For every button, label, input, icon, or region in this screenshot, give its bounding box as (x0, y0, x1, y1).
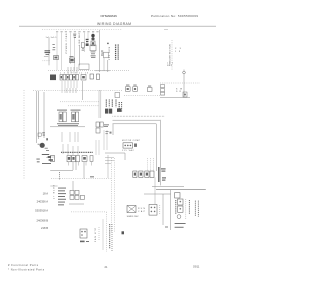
svg-text:5303918 A: 5303918 A (35, 208, 48, 212)
wire (155, 124, 157, 171)
dashes (98, 227, 100, 240)
mark (134, 144, 137, 147)
connector ticks (67, 88, 76, 93)
wire (69, 203, 84, 205)
dashed wire (160, 82, 200, 84)
ticks above strip 2 (63, 144, 78, 155)
starter cluster (70, 58, 75, 63)
wire (84, 33, 86, 53)
harness verticals (99, 90, 101, 118)
wire (50, 169, 73, 171)
connector (115, 93, 120, 98)
switch marks (52, 44, 55, 50)
header rule (19, 25, 216, 27)
terminal block (105, 109, 112, 114)
rotated label (194, 201, 196, 217)
wire (152, 185, 184, 187)
door switch stack (161, 85, 165, 96)
connector J1 pins (60, 75, 79, 81)
wire grid (105, 155, 114, 178)
dashed stub (42, 60, 49, 62)
defrost timer label (57, 110, 81, 111)
svg-text:Publication No: 5995580069: Publication No: 5995580069 (151, 14, 198, 18)
rotated label (109, 224, 111, 249)
overload protector (91, 34, 94, 37)
wire (48, 38, 50, 65)
part list tick (50, 185, 57, 187)
rotated wire labels (105, 100, 107, 108)
wire (105, 152, 125, 154)
small connector boxes (70, 190, 84, 199)
dashed vertical (185, 199, 187, 219)
svg-text:MOTOR COMP: MOTOR COMP (122, 140, 141, 142)
junction tick (107, 43, 109, 44)
rotated wire label (118, 102, 120, 112)
wire (103, 58, 105, 71)
wire (61, 33, 63, 71)
svg-text:18: 18 (175, 51, 181, 53)
rotated wire label (117, 45, 119, 61)
timer pin labels (57, 123, 79, 126)
wire (160, 97, 190, 99)
start device (149, 205, 157, 216)
svg-text:M: M (41, 144, 43, 147)
terminal mark (117, 108, 121, 112)
connector pin ticks (68, 67, 77, 74)
connector J4 (97, 74, 100, 80)
svg-text:FFHS2622MW: FFHS2622MW (101, 14, 118, 18)
svg-text:* Non-Illustrated Parts: * Non-Illustrated Parts (8, 268, 45, 272)
relay box row (133, 171, 154, 177)
evaporator fan motor cluster (38, 133, 41, 136)
wire (102, 219, 104, 250)
wire (159, 120, 161, 186)
diagram top boundary dashed (42, 28, 122, 30)
connector strip 2 boxes (67, 156, 93, 162)
PTC start relay (91, 41, 95, 46)
cabinet dashed border (23, 90, 25, 180)
freezer partition dashed (171, 40, 173, 70)
junction box (104, 52, 109, 58)
wire (99, 30, 101, 72)
thermostat boxes (178, 199, 183, 205)
ice maker outline (79, 64, 89, 70)
svg-text:18 A: 18 A (43, 192, 49, 196)
wire (43, 92, 45, 138)
rotated wire label (121, 102, 123, 112)
capacitor C1 (45, 50, 51, 54)
marks below (80, 241, 89, 243)
component cluster (86, 39, 89, 46)
freezer fan box (80, 229, 87, 238)
connector strip 2 labels (61, 151, 93, 153)
svg-text:240356 A: 240356 A (37, 199, 49, 203)
wire (74, 38, 76, 70)
dashed vertical (106, 212, 108, 252)
dashed wire (51, 178, 111, 180)
rotated wire label (111, 100, 113, 108)
ticks (62, 132, 78, 142)
dashed wire (71, 211, 107, 213)
svg-text:WIRING DIAGRAM: WIRING DIAGRAM (97, 22, 131, 26)
svg-text:CAP: CAP (138, 210, 146, 213)
text rows (58, 188, 66, 206)
dashed wire (33, 90, 122, 92)
svg-text:115 VAC: 115 VAC (122, 149, 135, 152)
svg-text:N2: N2 (167, 65, 173, 67)
compressor terminal box (90, 45, 96, 51)
switch marks (82, 48, 85, 50)
wire (112, 124, 114, 135)
svg-text:YEL BRN: YEL BRN (109, 46, 111, 60)
wire (72, 181, 74, 190)
connector (175, 193, 180, 198)
svg-text:LINE WHT: LINE WHT (79, 32, 81, 46)
wire (82, 81, 84, 100)
main vertical wire pair (36, 91, 38, 143)
wire (183, 74, 185, 97)
thermostat bulb (177, 215, 181, 219)
relay block (96, 122, 103, 133)
wires below connector (62, 81, 77, 93)
wire (92, 31, 94, 34)
svg-text:03/11: 03/11 (193, 264, 200, 268)
freezer lamp (183, 71, 186, 74)
wire (70, 33, 72, 65)
wire (162, 194, 164, 225)
svg-text:1=1-1=1-1: 1=1-1=1-1 (46, 37, 58, 39)
boundary tick (164, 29, 168, 31)
tick (44, 56, 48, 58)
dashed wires center (60, 101, 99, 103)
wire (154, 177, 156, 204)
harness dashed wire (48, 70, 130, 72)
bracket bar (158, 167, 159, 182)
svg-text:POWER CORD: POWER CORD (66, 33, 68, 54)
compressor box (123, 143, 133, 148)
rotated wire label (115, 100, 117, 108)
harness verticals right (96, 130, 107, 155)
motor M2 (40, 143, 45, 148)
wire (107, 60, 109, 72)
wire (87, 33, 89, 40)
harness marks (106, 131, 112, 134)
relay K1 (53, 56, 58, 60)
lamp assembly (183, 92, 187, 97)
dashed wire right (124, 95, 165, 97)
svg-text:218 B: 218 B (41, 226, 48, 230)
rotated wire label (108, 100, 110, 108)
svg-text:240368 B: 240368 B (36, 218, 48, 222)
marks (90, 175, 94, 178)
svg-text:DR: DR (176, 91, 182, 93)
wire (113, 123, 157, 125)
wire label specks row (56, 30, 99, 33)
run capacitor (127, 206, 136, 213)
svg-text:LT BLUE: LT BLUE (53, 184, 55, 199)
label marks (73, 34, 76, 38)
svg-text:RUN: RUN (138, 208, 146, 210)
defrost timer boxes (59, 112, 79, 122)
bracket labels (161, 168, 166, 180)
labels (165, 223, 186, 228)
wire (56, 33, 58, 71)
wire (170, 190, 172, 230)
dashed vertical pair (111, 158, 114, 232)
section rule (156, 189, 206, 191)
dashes (159, 205, 161, 214)
ground mark (122, 231, 125, 234)
motor marks (36, 154, 53, 164)
junction marks (101, 51, 103, 56)
wires below strip 2 (73, 162, 84, 179)
connector J3 (90, 74, 94, 79)
wire (78, 46, 80, 66)
dashed verticals to relays (148, 158, 154, 172)
switch S1 (81, 43, 84, 48)
svg-text:10MFD 250V: 10MFD 250V (127, 216, 140, 218)
wire (124, 153, 126, 160)
rotated wire label (59, 172, 61, 180)
strip ticks (69, 162, 92, 166)
svg-text:# Functional Parts: # Functional Parts (8, 263, 39, 267)
inline connectors (126, 87, 153, 92)
svg-text:FAN MTR: FAN MTR (94, 227, 97, 242)
rotated label (175, 200, 177, 214)
defrost heater dotted (113, 115, 166, 117)
main board connector block (50, 75, 56, 81)
wire (113, 119, 161, 121)
ground wire strip (111, 224, 113, 252)
wire (144, 193, 171, 195)
wire (95, 70, 110, 72)
rotated label (188, 200, 190, 214)
connector J2 (81, 75, 86, 81)
rotated wire label (115, 45, 117, 61)
wire (50, 126, 85, 128)
